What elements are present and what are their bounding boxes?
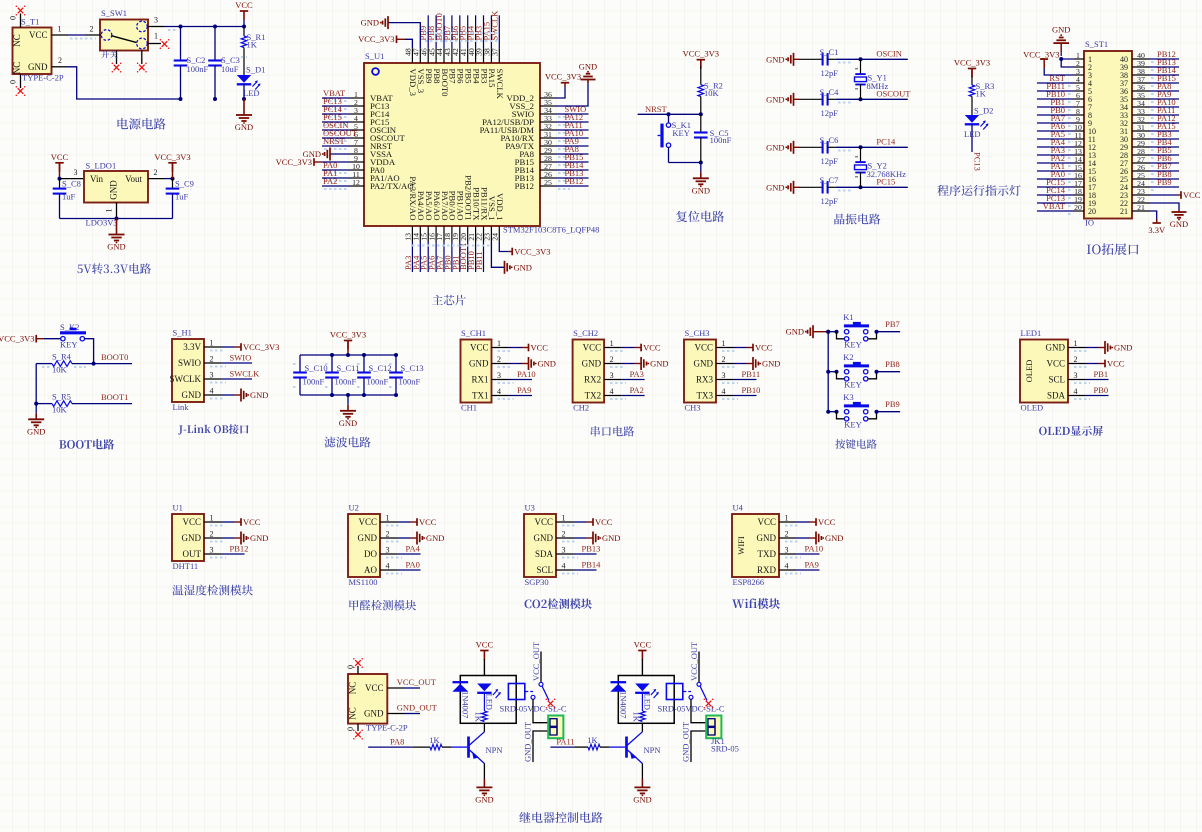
ground GND top of ST1 (pins 1,2) xyxy=(1061,59,1074,67)
svg-text:GND: GND xyxy=(766,182,784,192)
svg-text:100nF: 100nF xyxy=(303,377,325,387)
label 开关 xyxy=(101,50,117,58)
wire from switch to terminal block xyxy=(691,699,706,722)
svg-text:VCC_3V3: VCC_3V3 xyxy=(154,152,190,162)
pin 2 Vout of LDO xyxy=(148,178,165,180)
svg-text:GND: GND xyxy=(692,185,710,195)
svg-text:KEY: KEY xyxy=(844,340,861,350)
svg-text:PC13: PC13 xyxy=(973,152,983,171)
wire + rotated net label PB4 xyxy=(475,15,477,48)
wire + rotated net label PB10 xyxy=(475,242,477,272)
key button K1 xyxy=(826,330,830,334)
wire + net label PB7 xyxy=(1150,170,1179,172)
wire + net label PA5 xyxy=(1037,138,1074,140)
capacitor S_C10 100nF xyxy=(299,355,301,373)
pin 0 bottom of S_T1 with no-connect X xyxy=(20,74,22,88)
svg-text:CH3: CH3 xyxy=(685,403,701,413)
wire loop rectangle xyxy=(460,676,516,724)
svg-text:S_SW1: S_SW1 xyxy=(101,8,127,18)
svg-text:BOOT1: BOOT1 xyxy=(101,392,128,402)
svg-text:PB10: PB10 xyxy=(742,385,761,395)
wire + net label PA3 xyxy=(1037,154,1074,156)
svg-text:S_C1: S_C1 xyxy=(820,47,839,57)
svg-text:TYPE-C-2P: TYPE-C-2P xyxy=(366,723,408,733)
wire + net label PB9 xyxy=(875,410,879,414)
svg-text:GND: GND xyxy=(475,794,493,804)
svg-text:S_R4: S_R4 xyxy=(52,352,72,362)
svg-text:SWIO: SWIO xyxy=(230,353,252,363)
wire bottom of key to node xyxy=(669,162,701,164)
svg-text:U1: U1 xyxy=(173,503,183,513)
svg-text:NPN: NPN xyxy=(486,745,503,755)
svg-text:20: 20 xyxy=(1088,207,1096,216)
title 电源电路 xyxy=(118,118,166,130)
dotted marks near top labels xyxy=(425,32,500,34)
capacitor S_C12 100nF xyxy=(362,353,366,357)
svg-text:PB7: PB7 xyxy=(885,319,900,329)
svg-text:SWIO: SWIO xyxy=(178,358,201,368)
capacitor S_C9 1uF xyxy=(172,179,174,189)
wire PC15 to node xyxy=(828,186,836,188)
ground GND at VSS_2 pin 35 xyxy=(556,84,588,107)
svg-text:12: 12 xyxy=(352,178,360,187)
svg-text:GND: GND xyxy=(250,533,268,543)
net label VCC_OUT rotated + wire xyxy=(698,652,700,683)
svg-text:S_K2: S_K2 xyxy=(60,322,79,332)
svg-text:LED: LED xyxy=(485,694,495,711)
transistor NPN xyxy=(467,737,470,758)
bottom NC pin of TYPE-C-2P with X xyxy=(357,724,359,731)
svg-text:S_C11: S_C11 xyxy=(337,363,360,373)
svg-text:VCC: VCC xyxy=(531,343,549,353)
svg-text:CH2: CH2 xyxy=(573,403,589,413)
svg-text:25: 25 xyxy=(544,178,552,187)
wire + rotated net label PB5 xyxy=(467,15,469,48)
net label PA11 + base resistor 1K xyxy=(550,746,574,748)
svg-text:GND: GND xyxy=(182,533,202,543)
svg-text:GND: GND xyxy=(469,359,489,369)
pin 0 top of S_T1 with no-connect X xyxy=(20,14,22,28)
svg-text:VCC: VCC xyxy=(51,152,69,162)
svg-text:RXD: RXD xyxy=(757,565,777,575)
key button K2 xyxy=(826,370,830,374)
svg-text:VCC: VCC xyxy=(643,343,661,353)
svg-text:VCC: VCC xyxy=(755,343,773,353)
wire + net label PA8 xyxy=(556,153,589,155)
svg-text:1: 1 xyxy=(785,514,789,523)
svg-text:K1: K1 xyxy=(843,312,853,322)
wire + net label PB12 xyxy=(556,185,589,187)
svg-text:GND: GND xyxy=(650,359,668,369)
left vertical wire to GND xyxy=(35,364,37,404)
svg-text:100nF: 100nF xyxy=(187,64,209,74)
title 滤波电路 xyxy=(324,437,370,448)
svg-text:U4: U4 xyxy=(733,503,744,513)
svg-text:S_CH2: S_CH2 xyxy=(573,328,598,338)
svg-text:VCC: VCC xyxy=(243,517,261,527)
svg-text:VCC: VCC xyxy=(1183,190,1201,200)
svg-text:GND: GND xyxy=(766,142,784,152)
svg-text:PA2: PA2 xyxy=(630,385,644,395)
wire + rotated net label PA3 xyxy=(411,242,413,272)
svg-text:GND: GND xyxy=(107,242,125,252)
bottom bus of LDO xyxy=(60,218,173,220)
svg-text:S_CH1: S_CH1 xyxy=(461,328,486,338)
wire + net label PA7 xyxy=(1037,122,1074,124)
svg-text:2: 2 xyxy=(154,168,158,177)
capacitor S_C6 12pF xyxy=(799,146,823,148)
svg-text:AO: AO xyxy=(364,565,377,575)
wire + net label SWIO xyxy=(556,113,589,115)
ground GND of power circuit xyxy=(243,99,245,115)
wire + net label PA9 xyxy=(1150,98,1179,100)
svg-text:4: 4 xyxy=(497,387,501,396)
svg-text:BOOT0: BOOT0 xyxy=(101,352,128,362)
wire + net label PC14 xyxy=(322,113,350,115)
ground GND at VSS_3 pin 47 (top) xyxy=(388,23,420,49)
svg-text:GND: GND xyxy=(582,359,602,369)
svg-text:PA10: PA10 xyxy=(517,369,536,379)
title 复位电路 xyxy=(676,211,724,222)
svg-text:PA8: PA8 xyxy=(390,737,404,747)
wire + rotated net label PA4 xyxy=(419,242,421,272)
svg-text:GND_OUT: GND_OUT xyxy=(397,703,438,713)
svg-text:VCC_OUT: VCC_OUT xyxy=(689,641,699,681)
svg-text:S_C12: S_C12 xyxy=(369,363,392,373)
svg-text:S_C6: S_C6 xyxy=(820,135,839,145)
svg-text:VCC_3V3: VCC_3V3 xyxy=(330,330,366,340)
svg-text:1K: 1K xyxy=(474,712,484,723)
svg-text:4: 4 xyxy=(210,387,214,396)
wire + net label PA9 xyxy=(556,145,589,147)
svg-text:GND: GND xyxy=(109,180,119,200)
svg-text:ESP8266: ESP8266 xyxy=(733,577,765,587)
wire C2 branch xyxy=(180,27,182,61)
svg-text:RX1: RX1 xyxy=(471,375,488,385)
bottom bus wire of power circuit xyxy=(242,97,246,101)
svg-text:VCC: VCC xyxy=(757,517,776,527)
power flag VCC at pin 23 of ST1 xyxy=(1150,194,1178,196)
wire VCC to switch xyxy=(70,38,96,40)
wire + rotated net label PA6 xyxy=(435,242,437,272)
crystal S_Y1 8MHz xyxy=(859,57,863,61)
wire + net label PB9 xyxy=(1150,186,1179,188)
power VCC_3V3 at VDDA pin 9 xyxy=(322,161,350,163)
diode 1N4007 xyxy=(453,681,469,683)
wire + rotated net label PB7 xyxy=(451,15,453,48)
svg-text:VCC: VCC xyxy=(29,30,48,40)
wire + net label PA11 xyxy=(1150,114,1179,116)
svg-text:24: 24 xyxy=(491,233,500,241)
wire OSCIN to node xyxy=(828,58,836,60)
svg-text:8MHz: 8MHz xyxy=(867,81,889,91)
svg-text:1K: 1K xyxy=(247,40,258,50)
wire GND of T1 down to bottom bus xyxy=(67,67,181,99)
svg-text:100nF: 100nF xyxy=(710,135,732,145)
wire + rotated net label PB8 xyxy=(435,15,437,48)
svg-text:S_D1: S_D1 xyxy=(246,65,265,75)
svg-text:VCC_3V3: VCC_3V3 xyxy=(683,49,719,59)
title 晶振电路 xyxy=(834,214,880,225)
svg-text:GND_OUT: GND_OUT xyxy=(681,721,691,762)
svg-text:1K: 1K xyxy=(587,735,598,745)
LED of relay driver xyxy=(477,684,491,692)
svg-text:1: 1 xyxy=(210,514,214,523)
svg-text:VCC_3V3: VCC_3V3 xyxy=(276,157,312,167)
svg-text:GND: GND xyxy=(358,533,378,543)
svg-text:3: 3 xyxy=(1074,371,1078,380)
svg-text:4: 4 xyxy=(562,562,566,571)
svg-text:S_C13: S_C13 xyxy=(401,363,424,373)
title 程序运行指示灯 xyxy=(937,185,1020,196)
wire + rotated net label BOOT0 xyxy=(443,15,445,48)
svg-text:2: 2 xyxy=(722,355,726,364)
LED of relay driver xyxy=(635,684,649,692)
wire + net label PC15 xyxy=(322,121,350,123)
wire + net label PB8 xyxy=(875,370,879,374)
svg-text:3: 3 xyxy=(386,546,390,555)
svg-text:PC14: PC14 xyxy=(876,136,896,146)
svg-text:OLED: OLED xyxy=(1024,360,1034,383)
svg-text:GND: GND xyxy=(1170,219,1188,229)
wire + net label PA8 xyxy=(1150,90,1179,92)
wire + net label PA2 xyxy=(1037,162,1074,164)
svg-text:PB13: PB13 xyxy=(582,544,601,554)
net label VCC_OUT rotated + wire xyxy=(540,652,542,683)
svg-text:1: 1 xyxy=(58,25,62,34)
title 温湿度检测模块 xyxy=(172,585,253,596)
ground GND of LDO xyxy=(116,219,118,235)
svg-text:DHT11: DHT11 xyxy=(173,561,199,571)
wire + net label PA0 xyxy=(322,169,350,171)
power flag 3.3V at pin 21 of ST1 xyxy=(1150,211,1157,219)
svg-text:S_R5: S_R5 xyxy=(52,392,71,402)
ground GND of reset xyxy=(700,163,702,173)
svg-text:GND: GND xyxy=(1052,25,1070,35)
pin 1 GND of LDO down xyxy=(116,203,118,219)
svg-text:KEY: KEY xyxy=(844,380,861,390)
svg-text:VCC_3V3: VCC_3V3 xyxy=(514,247,550,257)
wire + net label PB3 xyxy=(1150,138,1179,140)
key button S_K1 xyxy=(667,112,671,116)
resistor 1K under LED xyxy=(483,693,485,711)
resistor S_R2 10K xyxy=(700,66,702,84)
switch bottom pin with X xyxy=(116,51,118,65)
svg-text:VDD_1: VDD_1 xyxy=(495,193,505,221)
svg-text:SDA: SDA xyxy=(1047,391,1066,401)
svg-text:0: 0 xyxy=(9,80,18,84)
svg-text:1: 1 xyxy=(497,339,501,348)
svg-text:NC: NC xyxy=(348,707,358,720)
svg-text:TX1: TX1 xyxy=(472,391,489,401)
key button K3 xyxy=(826,410,830,414)
svg-text:Vout: Vout xyxy=(125,174,142,184)
title 甲醛检测模块 xyxy=(349,600,416,611)
wire + rotated net label PB3 xyxy=(483,15,485,48)
title 主芯片 xyxy=(432,295,466,306)
title CO2检测模块 xyxy=(525,598,592,609)
wire + net label PB10 xyxy=(1037,98,1074,100)
svg-text:GND: GND xyxy=(766,54,784,64)
svg-text:K2: K2 xyxy=(843,352,853,362)
svg-text:SCL: SCL xyxy=(1048,375,1065,385)
svg-text:2: 2 xyxy=(610,355,614,364)
wire + net label VBAT xyxy=(1037,210,1074,212)
relay switch arm xyxy=(697,682,701,686)
svg-text:GND: GND xyxy=(762,359,780,369)
svg-text:LED1: LED1 xyxy=(1021,328,1042,338)
svg-text:PB11: PB11 xyxy=(742,369,761,379)
title IO拓展口 xyxy=(1087,243,1139,255)
svg-text:3: 3 xyxy=(722,371,726,380)
title 5V转3.3V电路 xyxy=(77,263,151,274)
svg-text:3: 3 xyxy=(74,168,78,177)
svg-text:100nF: 100nF xyxy=(399,377,421,387)
svg-text:100nF: 100nF xyxy=(367,377,389,387)
svg-text:Link: Link xyxy=(173,402,190,412)
wire loop rectangle xyxy=(618,676,674,724)
svg-text:VCC_3V3: VCC_3V3 xyxy=(545,72,581,82)
title OLED显示屏 xyxy=(1039,426,1103,436)
svg-text:PB11: PB11 xyxy=(474,251,484,270)
diode 1N4007 xyxy=(611,681,627,683)
svg-text:1: 1 xyxy=(562,514,566,523)
svg-text:PA4: PA4 xyxy=(406,544,421,554)
wire + net label RST xyxy=(1037,82,1074,84)
svg-text:PB9: PB9 xyxy=(885,399,900,409)
svg-text:1: 1 xyxy=(722,339,726,348)
ground GND of transistor xyxy=(641,764,643,780)
wire + net label PC14 xyxy=(1037,194,1074,196)
svg-text:3: 3 xyxy=(497,371,501,380)
svg-text:2: 2 xyxy=(562,530,566,539)
svg-text:3: 3 xyxy=(610,371,614,380)
svg-text:2: 2 xyxy=(210,530,214,539)
dotted marks below chip xyxy=(412,245,492,247)
capacitor S_C1 12pF xyxy=(799,58,823,60)
svg-text:GND: GND xyxy=(825,533,843,543)
svg-text:GND: GND xyxy=(1046,343,1066,353)
wire + net label PB12 xyxy=(1150,58,1179,60)
svg-text:2: 2 xyxy=(1074,355,1078,364)
svg-text:LED: LED xyxy=(243,88,260,98)
wire + net label PB0 xyxy=(1037,114,1074,116)
svg-text:PA2/TX/AO: PA2/TX/AO xyxy=(370,181,414,191)
svg-text:VCC_3V3: VCC_3V3 xyxy=(1023,50,1059,60)
svg-text:VCC: VCC xyxy=(182,517,201,527)
svg-text:SDA: SDA xyxy=(535,549,554,559)
svg-text:VCC_OUT: VCC_OUT xyxy=(397,677,437,687)
svg-text:K3: K3 xyxy=(843,392,853,402)
wire + rotated net label BOOT1 xyxy=(467,242,469,272)
wire + net label PA4 xyxy=(1037,146,1074,148)
title J-Link OB接口 xyxy=(178,424,248,434)
relay coil SRD-05VDC-SL-C xyxy=(666,684,682,700)
svg-text:GND: GND xyxy=(538,359,556,369)
ground GND at crystal row S_C4 xyxy=(794,98,800,100)
svg-text:1: 1 xyxy=(610,339,614,348)
svg-text:PB12: PB12 xyxy=(515,181,534,191)
svg-text:DO: DO xyxy=(364,549,377,559)
title BOOT电路 xyxy=(59,439,114,450)
svg-text:Vin: Vin xyxy=(90,174,103,184)
svg-text:U3: U3 xyxy=(525,503,535,513)
svg-text:PB1: PB1 xyxy=(1094,369,1109,379)
svg-text:TX3: TX3 xyxy=(697,391,714,401)
svg-text:VCC: VCC xyxy=(1107,359,1125,369)
wire + net label PC15 xyxy=(1037,186,1074,188)
svg-text:PA10: PA10 xyxy=(805,544,824,554)
wire from key to BOOT0 node xyxy=(85,339,94,364)
capacitor S_C3 10uF xyxy=(208,59,222,61)
pin 1 VCC of S_T1 xyxy=(52,34,69,36)
svg-text:PA2: PA2 xyxy=(323,176,337,186)
ground GND at VSSA pin 8 xyxy=(330,153,350,155)
wire + net label PB4 xyxy=(1150,146,1179,148)
svg-text:S_T1: S_T1 xyxy=(21,17,39,27)
svg-text:VCC: VCC xyxy=(235,0,253,10)
svg-text:CH1: CH1 xyxy=(461,403,477,413)
svg-text:TX2: TX2 xyxy=(585,391,602,401)
title 串口电路 xyxy=(591,426,634,436)
terminal block connector SRD-05 xyxy=(548,716,563,739)
svg-text:21: 21 xyxy=(1137,203,1145,212)
svg-text:3: 3 xyxy=(210,371,214,380)
svg-text:2: 2 xyxy=(386,530,390,539)
svg-text:10uF: 10uF xyxy=(221,64,239,74)
svg-text:PA9: PA9 xyxy=(517,385,531,395)
svg-text:GND: GND xyxy=(28,62,48,72)
wire + net label PB15 xyxy=(1150,82,1179,84)
svg-text:3.3V: 3.3V xyxy=(183,342,201,352)
svg-text:21: 21 xyxy=(1120,207,1128,216)
svg-text:3: 3 xyxy=(210,546,214,555)
wire + net label PB5 xyxy=(1150,154,1179,156)
wire + net label PA10 xyxy=(556,137,589,139)
svg-text:WIFI: WIFI xyxy=(736,536,746,555)
svg-text:TXD: TXD xyxy=(758,549,777,559)
svg-text:VCC_3V3: VCC_3V3 xyxy=(358,34,394,44)
svg-text:10K: 10K xyxy=(52,405,68,415)
top NC pin of TYPE-C-2P with X xyxy=(357,666,359,674)
svg-text:SRD-05: SRD-05 xyxy=(711,744,739,754)
svg-text:NRST: NRST xyxy=(323,136,346,146)
wire + net label PB14 xyxy=(556,169,589,171)
resistor S_R3 1K xyxy=(971,76,973,85)
wire + rotated net label PA15 xyxy=(490,15,492,48)
capacitor S_C4 12pF xyxy=(799,98,823,100)
svg-text:1N4007: 1N4007 xyxy=(461,691,471,718)
svg-text:S_D2: S_D2 xyxy=(974,106,993,116)
svg-text:VCC_3V3: VCC_3V3 xyxy=(243,342,279,352)
svg-text:PB12: PB12 xyxy=(230,544,249,554)
svg-text:2: 2 xyxy=(785,530,789,539)
svg-text:GND: GND xyxy=(426,533,444,543)
svg-text:1: 1 xyxy=(105,209,114,213)
wire + net label PA1 xyxy=(1037,170,1074,172)
svg-text:RX3: RX3 xyxy=(696,375,714,385)
wire + net label PB1 xyxy=(1037,106,1074,108)
svg-text:U2: U2 xyxy=(349,503,359,513)
ground GND of transistor xyxy=(483,764,485,780)
capacitor S_C5 100nF xyxy=(700,114,702,132)
svg-text:SWCLK: SWCLK xyxy=(230,369,261,379)
svg-text:MS1100: MS1100 xyxy=(349,577,378,587)
ground GND at crystal row S_C7 xyxy=(794,186,800,188)
relay coil SRD-05VDC-SL-C xyxy=(508,684,524,700)
svg-text:GND: GND xyxy=(694,359,714,369)
svg-text:1K: 1K xyxy=(632,712,642,723)
